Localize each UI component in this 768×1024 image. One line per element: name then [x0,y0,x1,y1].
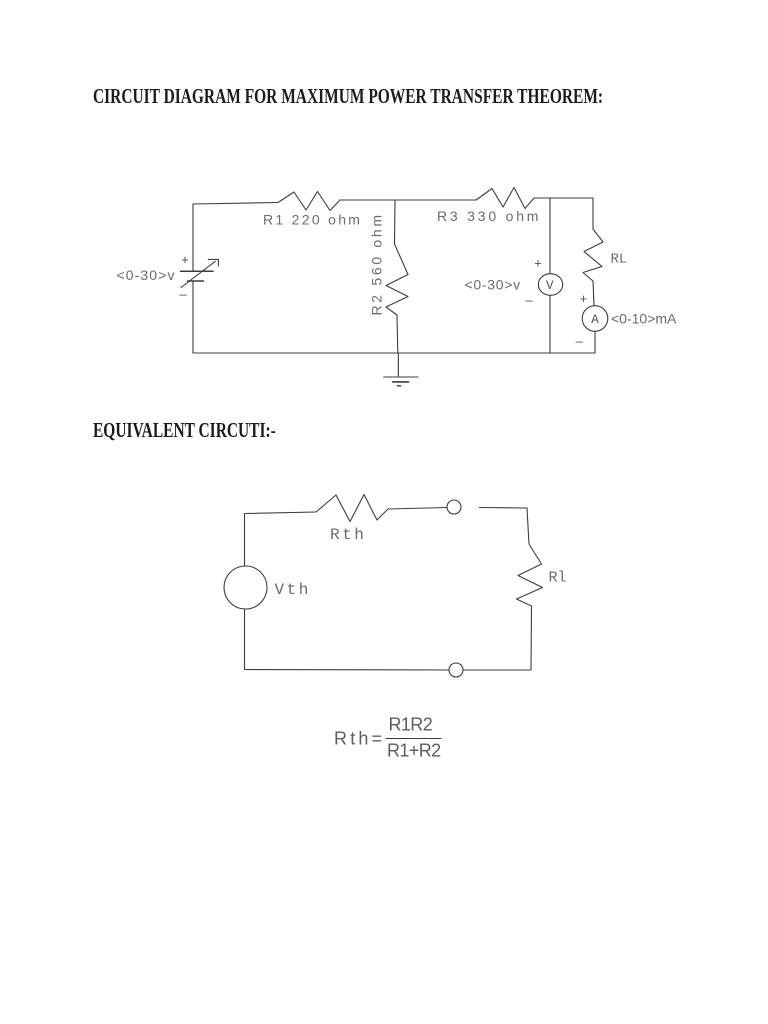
svg-text:+: + [181,252,189,267]
svg-text:+: + [580,291,588,306]
svg-text:Rl: Rl [549,570,567,587]
formula: fraction bar [386,738,441,740]
svg-text:V: V [546,279,554,293]
svg-text:Vth: Vth [275,581,311,599]
svg-text:+: + [534,256,542,271]
wire: eq right upper lead [527,508,529,544]
wire: R2 bottom lead [396,315,399,353]
wire: eq bottom-left segment [245,669,450,672]
wire: eq top segment to terminal [388,508,447,510]
resistor R2 [386,244,408,315]
voltage source BT1 plate long [181,270,214,272]
node: open terminal bottom [449,663,463,677]
svg-text:<0-30>v: <0-30>v [465,276,521,292]
wire: top middle segment through node to R3 [340,199,476,201]
voltmeter V1 [538,274,562,296]
node: open terminal top [447,500,461,514]
resistor R3 [476,188,534,209]
wire: top-right segment from R3 to RL branch [534,197,593,199]
svg-text:RL: RL [611,252,628,268]
svg-text:<0-30>v: <0-30>v [117,267,176,283]
svg-text:R1+R2: R1+R2 [387,741,441,761]
voltage source BT1 plate short [188,280,204,282]
node: R2 branch junction, wire down from top wire [394,200,397,244]
wire: RL bottom lead to ammeter [593,281,594,306]
svg-text:–: – [576,333,584,348]
wire: left branch lower [192,281,194,353]
svg-text:–: – [179,287,187,302]
wire: top-left segment from source to R1 [193,203,278,205]
wire: voltmeter branch upper [549,198,551,273]
svg-text:R2 560 ohm: R2 560 ohm [369,212,385,315]
resistor Rth [316,495,388,522]
wire: RL top lead [592,198,594,229]
wire: bottom bus [193,352,595,354]
svg-text:<0-10>mA: <0-10>mA [611,310,677,326]
wire: left branch upper [192,204,194,271]
voltage source arrow head [208,259,218,266]
wire: eq right lower lead [530,606,533,670]
heading: circuit diagram title [93,86,603,107]
svg-text:R1R2: R1R2 [389,715,433,735]
wire: ammeter bottom lead [594,332,596,354]
wire: eq top-right segment [480,507,528,510]
resistor RL [583,229,603,281]
ground [397,353,399,377]
wire: eq top-left segment [245,512,317,514]
svg-text:Rth=: Rth= [334,729,385,749]
wire: eq left upper lead [244,514,246,567]
svg-text:–: – [525,293,533,308]
resistor Rl [517,544,543,606]
ammeter A1 [582,306,608,332]
wire: eq bottom-right segment [463,669,531,671]
resistor R1 [278,192,340,211]
svg-text:Rth: Rth [330,526,366,544]
heading: equivalent circuit [93,420,276,441]
voltage source variable arrow [181,261,215,287]
svg-text:R3 330 ohm: R3 330 ohm [437,208,541,224]
voltage source Vth [224,566,267,609]
wire: eq left lower lead [244,609,246,670]
wire: voltmeter branch lower [549,296,551,353]
svg-text:R1 220 ohm: R1 220 ohm [263,212,362,228]
svg-text:A: A [591,313,599,327]
